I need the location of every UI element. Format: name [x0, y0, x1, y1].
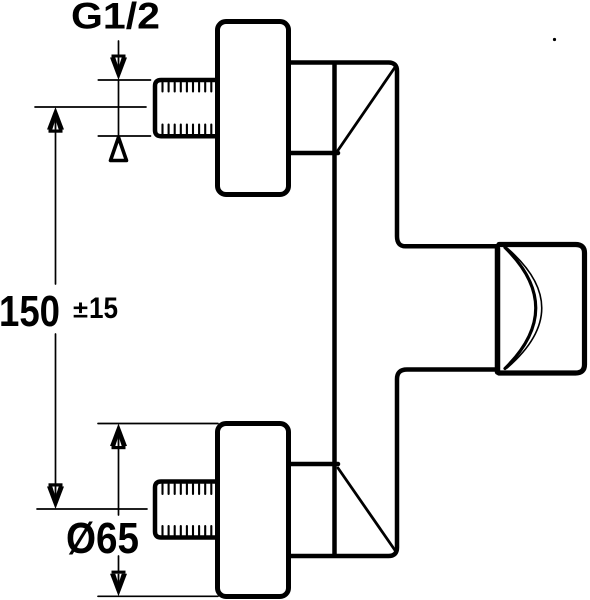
upper thread ticks top — [163, 83, 212, 92]
arrow 150 bottom (filled, pointing down) — [47, 483, 64, 509]
stray dot artifact — [553, 38, 556, 41]
chamfer diagonal lower — [338, 468, 396, 551]
lower flange — [218, 424, 289, 597]
extension line Ø65 top — [98, 423, 218, 425]
upper flange — [218, 22, 289, 195]
knob face arc outer — [505, 248, 536, 369]
lower thread ticks bottom — [163, 526, 212, 536]
extension line 150 top (upper pipe centerline) — [35, 106, 146, 108]
svg-text:150: 150 — [0, 287, 60, 336]
escutcheon front edge — [495, 249, 501, 373]
svg-text:±: ± — [73, 297, 88, 324]
body left edge (continuous) — [332, 64, 337, 554]
handle knob body — [499, 245, 585, 374]
arrow 150 top (filled, pointing up) — [47, 107, 64, 133]
knob face arc inner — [507, 248, 542, 368]
chamfer diagonal upper — [338, 67, 396, 152]
extension line thread bottom — [98, 135, 150, 137]
upper nipple bottom edge — [291, 151, 338, 156]
arrow G1/2 bottom (hollow, pointing up) — [111, 137, 127, 160]
lower threaded connector outline — [155, 482, 215, 538]
dimension line Ø65 vertical — [118, 436, 120, 584]
dimension line G1/2 vertical — [118, 41, 120, 136]
body upper outline — [291, 63, 497, 247]
extension line thread top — [98, 79, 150, 81]
arrow G1/2 top (filled, pointing down) — [110, 55, 127, 81]
upper threaded connector outline — [155, 80, 215, 136]
extension line Ø65 bottom — [98, 595, 218, 597]
svg-text:G1/2: G1/2 — [71, 0, 160, 37]
arrow Ø65 bottom (filled, pointing down) — [110, 571, 127, 597]
lower thread ticks top — [163, 484, 212, 494]
body lower outline — [291, 370, 497, 557]
upper thread ticks bottom — [163, 125, 212, 135]
lower nipple top edge — [291, 462, 338, 467]
extension line 150 bottom (lower pipe centerline) — [37, 508, 147, 510]
dimension line 150 vertical — [55, 120, 57, 497]
svg-text:15: 15 — [89, 292, 118, 325]
arrow Ø65 top (filled, pointing up) — [110, 424, 127, 450]
svg-text:Ø65: Ø65 — [66, 514, 139, 563]
